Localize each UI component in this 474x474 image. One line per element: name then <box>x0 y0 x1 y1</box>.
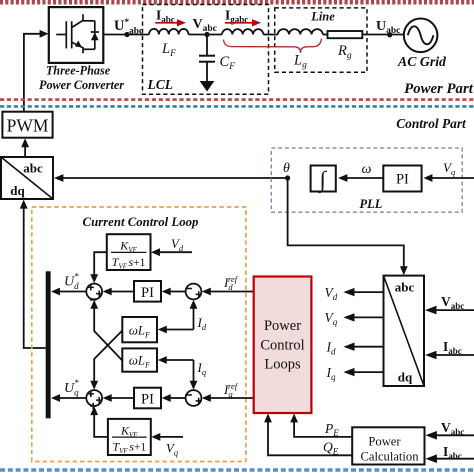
label Iqref <box>223 381 239 399</box>
label AC Grid <box>397 54 447 69</box>
svg-text:AC Grid: AC Grid <box>397 54 447 69</box>
wire S4 to PI2 <box>162 394 186 402</box>
label Vd (feedforward input) <box>171 237 184 253</box>
label LF <box>161 41 176 59</box>
Power Control Loops box <box>254 277 312 414</box>
svg-text:LCL: LCL <box>147 77 174 92</box>
PLL dashed box <box>271 148 462 212</box>
summing junction S3 (q-axis output) <box>86 390 102 409</box>
label omega <box>362 162 372 177</box>
Current Control Loop dashed box <box>32 207 246 462</box>
wire S3 to bus bar Uq* <box>51 394 86 402</box>
IGBT with antiparallel diode inside converter <box>56 14 99 53</box>
label PE <box>324 421 339 438</box>
label theta <box>283 161 290 176</box>
wire S1 to bus bar Ud* <box>51 288 86 296</box>
label Power Part <box>404 81 474 97</box>
wire KVF2 block to S3 <box>90 406 108 437</box>
wire PE to Power Control Loops <box>290 414 352 437</box>
wire omega PI to integrator <box>338 174 383 182</box>
label Uq* <box>64 378 79 398</box>
wire abc-dq to PWM <box>21 138 29 157</box>
node Vabc dot <box>204 32 209 37</box>
label Vabc <box>193 17 217 34</box>
label Id (measured) <box>197 315 207 332</box>
summing junction S2 (d current error) <box>185 284 202 300</box>
label QE <box>323 440 339 457</box>
grid coil part 1 <box>222 29 263 34</box>
wire Id up into S2 <box>190 300 198 330</box>
red current arrow Iabc <box>155 8 186 27</box>
wire Iq into wLF2 <box>158 356 194 364</box>
PI block q-axis <box>134 388 161 409</box>
wire Id into wLF1 <box>158 326 194 334</box>
AC grid source <box>404 19 438 53</box>
svg-text:U*d: U*d <box>64 272 79 292</box>
grid coil part 2 (Lg) <box>278 29 323 34</box>
svg-text:PLL: PLL <box>360 197 383 211</box>
voltage feedforward block KVF/(TVFs+1) d-axis <box>107 234 151 270</box>
node theta dot <box>285 175 290 180</box>
capacitor CF <box>199 35 215 82</box>
wire PI2 to S3 <box>103 394 134 402</box>
svg-text:Three-Phase: Three-Phase <box>46 64 111 78</box>
wire S2 to PI <box>162 288 186 296</box>
wire QE to Power Control Loops <box>264 414 352 456</box>
label Current Control Loop <box>83 215 200 229</box>
wire Iq down into S4 <box>190 360 198 390</box>
label Ud* <box>64 272 79 292</box>
wire Iabc into abc-dq <box>425 351 474 360</box>
label Idref <box>223 274 239 292</box>
Power Calculation box <box>352 427 424 464</box>
svg-text:θ: θ <box>283 161 290 176</box>
svg-text:U*q: U*q <box>64 378 79 398</box>
wire Iq output <box>343 368 383 376</box>
Line dashed box <box>275 8 367 72</box>
summing junction S4 (q current error) <box>185 390 202 406</box>
wire Idref from PCL to S2 <box>202 288 254 296</box>
wire PWM to converter input <box>24 30 49 112</box>
top red dashed border <box>0 0 474 5</box>
label Rg <box>337 43 352 61</box>
wire dq-abc block down to bus bar <box>20 200 46 348</box>
wire Vq into PLL PI <box>424 174 474 182</box>
label Vabc input <box>441 294 464 311</box>
label LCL <box>147 77 174 92</box>
svg-text:Power: Power <box>264 318 301 334</box>
svg-text:TVFs+1: TVFs+1 <box>112 255 146 271</box>
svg-text:PI: PI <box>396 172 409 188</box>
svg-text:Current Control Loop: Current Control Loop <box>83 215 200 229</box>
abc to dq transform (right) <box>384 276 425 386</box>
inductor LF coil <box>149 29 189 35</box>
resistor Rg <box>328 31 363 38</box>
wire KVF block to summer 1 <box>90 252 107 283</box>
label Iabc (power calc) <box>443 444 462 461</box>
svg-text:Line: Line <box>310 10 335 24</box>
svg-text:Power Converter: Power Converter <box>39 78 124 92</box>
node U*abc dot <box>124 32 129 37</box>
label Line <box>310 10 335 24</box>
svg-text:Power Part: Power Part <box>404 81 474 97</box>
voltage feedforward block KVF/(TVFs+1) q-axis <box>108 419 151 455</box>
wire Iqref from PCL to S4 <box>202 394 254 402</box>
mid blue dashed separator <box>0 105 474 108</box>
label Iabc input <box>443 339 462 356</box>
svg-text:PI: PI <box>141 285 154 301</box>
label CF <box>220 54 236 72</box>
wire Vq output <box>343 313 383 321</box>
wire Iabc into power calculation <box>425 454 474 463</box>
svg-text:ω: ω <box>362 162 372 177</box>
three-phase power converter U1 box <box>49 7 104 63</box>
cross wire wLF2 to S1 <box>90 300 122 361</box>
bus bar collecting Ud* Uq* <box>46 271 51 418</box>
label Vd output <box>325 285 338 302</box>
node Uabc dot <box>387 32 392 37</box>
svg-text:Control Part: Control Part <box>396 116 467 131</box>
wire PI to S1 <box>103 288 134 296</box>
label Iq (measured) <box>197 360 207 377</box>
svg-text:PWM: PWM <box>7 116 49 136</box>
decoupling block wLF2 <box>122 348 157 371</box>
LCL dashed box <box>143 5 269 95</box>
decoupling block wLF1 <box>122 317 157 342</box>
svg-text:abc: abc <box>395 280 415 295</box>
bottom blue dashed border <box>0 468 474 471</box>
label Iq output <box>326 365 337 382</box>
mid red dashed separator <box>0 98 474 101</box>
converter caption <box>39 64 124 93</box>
wire Vabc into abc-dq <box>425 306 474 315</box>
wire Vd output <box>343 288 383 296</box>
wire theta to dq-abc block <box>54 174 288 182</box>
wire Vabc into power calculation <box>425 431 474 440</box>
PWM box <box>2 112 52 138</box>
label PLL <box>360 197 383 211</box>
dq to abc transform (left) <box>1 157 53 199</box>
svg-text:TVFs+1: TVFs+1 <box>112 440 146 456</box>
label Control Part <box>396 116 467 131</box>
label Uabc <box>376 19 400 36</box>
wire Vd into KVF block <box>151 248 192 256</box>
svg-text:PI: PI <box>141 392 154 408</box>
PI block of PLL <box>383 166 421 192</box>
red current arrow Igabc <box>225 8 261 27</box>
integrator block <box>311 166 336 195</box>
label Vq output <box>325 310 338 327</box>
wire Id output <box>343 343 383 351</box>
label Vq (PLL input) <box>443 160 456 177</box>
label Vabc (power calc) <box>441 420 464 437</box>
label Vq (feedforward input) <box>166 442 179 458</box>
red brace under Lg <box>224 39 322 54</box>
label Id output <box>326 340 337 357</box>
svg-text:Calculation: Calculation <box>360 450 419 464</box>
label Lg <box>293 53 307 71</box>
wire Vq into KVF2 block <box>151 433 183 441</box>
wire theta down to abc-dq (right) <box>288 178 408 275</box>
cross wire wLF1 to S3 <box>90 331 122 390</box>
svg-text:Control: Control <box>260 338 304 354</box>
label U*abc <box>114 17 143 37</box>
summing junction S1 (d-axis output) <box>86 284 102 300</box>
svg-text:abc: abc <box>23 161 43 176</box>
PI block d-axis <box>134 281 161 302</box>
svg-text:dq: dq <box>398 370 413 385</box>
main AC wire segments <box>103 34 404 36</box>
svg-text:dq: dq <box>10 183 25 198</box>
ground symbol <box>200 81 215 92</box>
svg-text:Power: Power <box>368 435 401 449</box>
svg-text:Loops: Loops <box>264 357 301 373</box>
